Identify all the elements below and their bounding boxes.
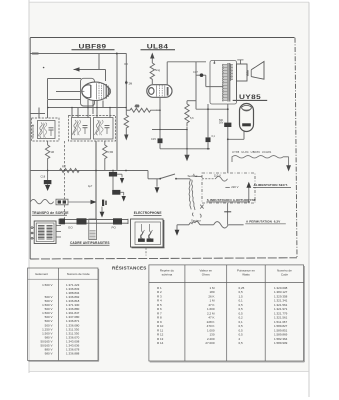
right table frame (149, 265, 304, 361)
svg-text:UY85: UY85 (239, 93, 261, 101)
node dots (159, 109, 188, 149)
capacitor C20 (112, 177, 114, 190)
page edge faint top (29, 1, 309, 3)
wire C17 link (196, 74, 206, 76)
arrowhead AVC (74, 67, 80, 71)
svg-text:Isolement: Isolement (35, 272, 48, 276)
arrowhead switch ground (155, 187, 160, 193)
schematic frame left (29, 38, 31, 259)
wire B+ through box (227, 203, 229, 225)
wire AVC bus vertical (125, 54, 127, 116)
resistor R cathode UL84 (186, 101, 188, 104)
svg-text:2M: 2M (129, 81, 133, 85)
plug prongs (192, 213, 201, 218)
potentiometer mark (102, 200, 104, 206)
ferrite antenna bar (59, 219, 128, 224)
wire mains hook (196, 175, 203, 177)
wire AVC rail dark end (32, 53, 39, 55)
tube UL84 symbol (147, 85, 172, 98)
svg-text:Secteur: Secteur (191, 218, 201, 222)
arrowhead down AVC (124, 135, 128, 141)
resistor under can2 (104, 141, 106, 145)
wire bus (48, 107, 127, 109)
svg-text:Code: Code (281, 273, 289, 277)
svg-text:S.INDUSTRADIO A.ORTHODYNE: S.INDUSTRADIO A.ORTHODYNE (207, 198, 256, 202)
transformer OT output (210, 61, 237, 105)
svg-text:0,5M: 0,5M (108, 151, 114, 154)
svg-text:980 V: 980 V (45, 352, 53, 356)
arrowhead heater end (286, 165, 291, 171)
resistor under can1 (47, 141, 49, 145)
svg-text:50V: 50V (219, 121, 224, 124)
wire screen row (152, 129, 187, 131)
capacitor 0,1u block (206, 137, 211, 142)
wire UY85 cathode (228, 138, 244, 140)
svg-text:UBF89: UBF89 (79, 42, 107, 50)
dashed cadre line (64, 141, 66, 219)
220V tap (225, 186, 229, 188)
svg-text:UL84: UL84 (147, 42, 169, 50)
wire (102, 100, 104, 107)
tables section (28, 264, 305, 363)
svg-text:1M: 1M (51, 151, 54, 154)
wire screen rail drop (116, 54, 118, 171)
coupling coil box (89, 219, 97, 240)
capacitor C19 electrolytic (224, 123, 231, 127)
wire (187, 100, 196, 102)
capacitor C19 (112, 171, 114, 172)
wire can feeds (38, 108, 40, 119)
left table frame (28, 268, 98, 361)
antenna feed arrow (101, 207, 103, 213)
wire OT primary left (205, 75, 207, 86)
node 2M junction (125, 81, 128, 84)
decoupling bus (30, 170, 148, 172)
wire AVC top rail (31, 53, 127, 55)
voltage selector (216, 177, 228, 182)
label tube UY85 (233, 93, 268, 101)
svg-text:470: 470 (135, 105, 140, 108)
resistor on AVC bus (124, 115, 128, 130)
secteur wire (177, 221, 244, 230)
svg-text:Numéro de Code: Numéro de Code (67, 272, 90, 276)
wire UBF89 pin down (87, 100, 89, 118)
svg-text:TRANSFO MF: TRANSFO MF (32, 123, 35, 139)
page edge faint right (308, 2, 310, 397)
svg-text:0,5: 0,5 (239, 341, 244, 345)
capacitor C18 (47, 171, 49, 181)
wire HT out arrow (248, 187, 250, 203)
antenna T bar (224, 211, 231, 213)
svg-text:ALIMENTATION SECT.: ALIMENTATION SECT. (254, 183, 288, 187)
resistor above UL84 (150, 63, 154, 84)
svg-text:PO: PO (112, 226, 117, 230)
svg-text:GO: GO (68, 226, 73, 230)
electrolytic feed wire (95, 141, 97, 219)
schematic frame right (dash-dot) (295, 38, 297, 258)
svg-text:C15: C15 (151, 137, 156, 141)
svg-text:ELECTROPHONE: ELECTROPHONE (134, 211, 162, 215)
svg-text:27.000: 27.000 (205, 341, 215, 345)
svg-text:4μ7: 4μ7 (88, 185, 93, 188)
tone filter row (31, 199, 54, 203)
twisted mains cord (189, 179, 191, 210)
wire UL84 anode (167, 61, 206, 63)
arrowhead secteur ground (175, 230, 180, 236)
node dot (43, 67, 45, 69)
svg-text:5mg: 5mg (155, 68, 161, 72)
page edge faint bottom (29, 371, 309, 373)
wire (92, 101, 94, 115)
arrowhead ground mid (184, 155, 189, 162)
svg-text:Ohms: Ohms (202, 273, 211, 277)
wire OT tap (206, 86, 223, 88)
node dots on bus (47, 107, 49, 109)
heater chain wavy wire (232, 156, 289, 166)
svg-text:C18: C18 (41, 176, 46, 179)
wire (105, 69, 107, 81)
svg-text:TRANSFO de SORTIE: TRANSFO de SORTIE (32, 211, 69, 215)
label tube UBF89 (72, 42, 115, 50)
wire AVC arrow (74, 68, 106, 70)
wire UL84 cathode down (159, 97, 161, 138)
X mark (200, 205, 203, 209)
schematic frame bottom (30, 258, 297, 259)
capacitor C15 block (158, 138, 163, 143)
resistor M75 (130, 108, 157, 112)
svg-text:A PERMUTATION 6,3V: A PERMUTATION 6,3V (246, 220, 280, 224)
wire screen feed (195, 62, 197, 109)
label tube UL84 (141, 42, 176, 50)
svg-text:C17: C17 (193, 70, 198, 74)
paper tint (30, 2, 310, 371)
bus HT mid (160, 148, 210, 150)
svg-text:Watts: Watts (242, 273, 250, 277)
svg-text:R 14: R 14 (157, 341, 164, 345)
schematic frame top (30, 37, 294, 39)
IF can 1 (32, 118, 60, 141)
page edge faint left (28, 0, 30, 373)
node tick on AVC bus (124, 63, 128, 65)
wire antenna stub (30, 113, 45, 115)
power supply dashed box (202, 173, 255, 203)
wire (96, 101, 98, 118)
resistor R7 (60, 169, 80, 173)
svg-text:Secteur: Secteur (188, 174, 198, 178)
wire grid return loop (48, 78, 81, 80)
svg-text:1.336.888: 1.336.888 (66, 352, 80, 356)
grid box UBF89 (81, 78, 95, 106)
svg-text:CADRE ANTIPARASITES: CADRE ANTIPARASITES (70, 241, 110, 245)
tube UBF89 symbol (82, 82, 111, 100)
dashed stub below pickup (145, 248, 147, 256)
arrowhead up UL84 (150, 53, 154, 59)
IF can 2 (69, 116, 116, 142)
svg-text:220 V: 220 V (231, 185, 238, 189)
transformer output bottom (31, 221, 61, 244)
component C17 (200, 73, 204, 77)
svg-text:1.589.909: 1.589.909 (274, 341, 288, 345)
node dots HT (207, 62, 229, 150)
speaker (237, 60, 265, 102)
svg-text:RÉSISTANCES: RÉSISTANCES (112, 264, 147, 271)
node 2M (125, 81, 127, 85)
tube UY85 symbol (240, 104, 254, 132)
wire (156, 109, 160, 111)
pickup connector box (131, 219, 165, 248)
svg-text:1.500 V: 1.500 V (42, 283, 52, 287)
svg-text:schéma: schéma (162, 273, 173, 277)
svg-text:5,6: 5,6 (190, 116, 194, 120)
svg-text:UY85 UL84 UBF89 UCH81: UY85 UL84 UBF89 UCH81 (232, 150, 272, 154)
switch (148, 171, 190, 187)
wire (98, 54, 100, 70)
wire HT top (196, 108, 228, 110)
wire B+ rail (227, 104, 229, 123)
wire cathode resistor row (126, 109, 130, 111)
node screen rail junction (116, 53, 118, 55)
